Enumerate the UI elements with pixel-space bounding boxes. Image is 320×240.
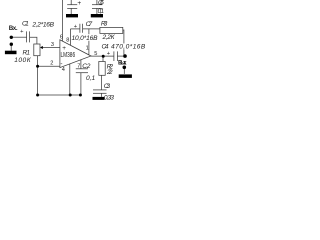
wire pin6 vertical to cropped top rail (61, 0, 63, 41)
capacitor C4 plates (113, 51, 115, 61)
svg-text:2,2*16В: 2,2*16В (31, 22, 54, 29)
ground rail bottom (37, 94, 80, 96)
svg-text:+: + (107, 51, 111, 57)
capacitor C7 plates (79, 24, 81, 33)
svg-text:Вх.: Вх. (9, 25, 18, 32)
wire output jack ground stem (123, 69, 125, 74)
wire C4 to output terminal (117, 55, 123, 57)
capacitor C6 stem top (96, 0, 98, 5)
node junction rail left (36, 94, 39, 97)
node output terminal (123, 54, 127, 58)
capacitor C7 left wire from pin 8 (71, 28, 80, 30)
node junction R1/pin2 (36, 65, 39, 68)
svg-text:2,2К: 2,2К (102, 34, 116, 41)
svg-text:Вых.: Вых. (118, 60, 127, 67)
svg-text:R3: R3 (101, 21, 108, 28)
capacitor C6 plates (92, 4, 102, 6)
wire pin 7 down to C2 (80, 60, 82, 69)
capacitor C1 plates (26, 31, 28, 42)
wire pin 2 (38, 65, 60, 67)
value C4 470,0*16В (111, 43, 146, 49)
capacitor C3 plates (93, 89, 107, 91)
capacitor C5 stem top (70, 0, 72, 5)
wire C7 to R3 (83, 28, 100, 30)
ground bar under C6 (91, 14, 103, 17)
svg-text:0,33: 0,33 (104, 95, 114, 100)
resistor R1 body (potentiometer) (34, 44, 40, 56)
wire input jack ground stem (10, 45, 12, 51)
wire pin 3 from wiper (42, 47, 60, 49)
svg-text:C6: C6 (98, 0, 104, 6)
wire pin 5 output (91, 55, 114, 57)
node junction rail C2 (79, 94, 82, 97)
svg-text:7: 7 (77, 63, 80, 69)
capacitor C2 plates (76, 68, 88, 70)
value C7 10,0*16В (white bg over pin1 wire) (71, 34, 98, 41)
svg-text:4: 4 (62, 67, 65, 73)
svg-text:5: 5 (94, 51, 97, 57)
ground bar under C3 (93, 97, 105, 100)
node input signal terminal (10, 36, 13, 39)
svg-text:10,0*16В: 10,0*16В (72, 35, 99, 42)
wire pin 8 (70, 29, 72, 46)
svg-text:C4: C4 (102, 44, 109, 51)
wire C2 stem to rail (80, 73, 82, 95)
ground bar input jack (5, 51, 17, 55)
wire input to C1 (11, 36, 26, 38)
svg-text:3: 3 (51, 42, 54, 48)
wire C5 stem bottom (70, 8, 72, 14)
potentiometer R1 wiper arrowhead (40, 46, 43, 49)
wire R2 bottom to C3 (101, 75, 103, 90)
wire R3 right end down to output (123, 30, 124, 56)
svg-text:+: + (62, 45, 66, 52)
ground bar output jack (119, 74, 132, 78)
svg-text:R1: R1 (23, 50, 31, 57)
svg-text:C2: C2 (82, 63, 91, 70)
svg-text:8: 8 (66, 37, 69, 43)
wire C3 stem bottom (101, 93, 103, 97)
ground bar under C5 (66, 14, 78, 17)
svg-text:0,1: 0,1 (86, 75, 96, 82)
svg-text:470,0*16В: 470,0*16В (111, 44, 146, 51)
svg-text:100К: 100К (14, 57, 32, 64)
wire R1 bottom to pin2 junction to ground rail (36, 56, 38, 95)
svg-text:C3: C3 (104, 83, 111, 90)
node junction output R2 (102, 55, 105, 58)
svg-text:C1: C1 (22, 21, 29, 28)
svg-text:+: + (74, 24, 78, 30)
svg-text:1: 1 (86, 45, 89, 51)
wire C6 stem bottom (96, 8, 98, 14)
wire R2 stem top (102, 56, 104, 61)
svg-text:C7: C7 (86, 21, 93, 28)
node input ground terminal (10, 43, 13, 46)
resistor R3 body (100, 27, 123, 33)
svg-text:2: 2 (50, 61, 53, 67)
node output ground terminal (123, 66, 127, 70)
svg-text:+: + (20, 29, 24, 35)
svg-text:0,1: 0,1 (98, 8, 104, 15)
capacitor C5 plates (67, 4, 77, 6)
resistor R2 body (99, 62, 105, 76)
svg-text:LM386: LM386 (61, 52, 76, 59)
svg-text:6: 6 (60, 34, 63, 40)
wire C1 to R1 top (30, 37, 37, 44)
op-amp U1 LM386 triangle (60, 40, 91, 68)
svg-text:22: 22 (106, 69, 113, 76)
wire pin 1 (88, 29, 90, 55)
svg-text:+: + (77, 0, 81, 7)
node junction rail pin4 (69, 94, 72, 97)
svg-text:-: - (60, 61, 62, 68)
wire pin 4 down to rail (69, 64, 71, 95)
